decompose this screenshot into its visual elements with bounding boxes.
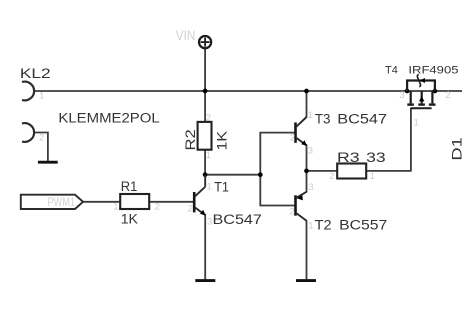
resistor R1 body (120, 194, 149, 209)
mosfet T4 substrate arrow (419, 96, 424, 101)
svg-text:2: 2 (289, 206, 294, 217)
wire T1 emitter to ground (204, 215, 206, 280)
svg-text:KLEMME2POL: KLEMME2POL (58, 110, 159, 126)
wire R1 to T1 base (149, 201, 193, 203)
svg-text:1: 1 (370, 171, 375, 182)
svg-text:2: 2 (329, 171, 334, 182)
junction dot output node (304, 169, 309, 174)
wire R2 bottom pin to T1 collector node (204, 150, 206, 175)
svg-text:1: 1 (113, 201, 118, 212)
wire R2 top pin (204, 91, 206, 122)
wire T1 collector node to base bus (205, 174, 260, 176)
svg-text:3: 3 (308, 182, 313, 193)
svg-text:PWM1: PWM1 (47, 195, 75, 209)
transistor T2 BC557 pnp (296, 192, 307, 221)
svg-text:33: 33 (366, 150, 386, 166)
ground symbol at KL2 pin 2 (38, 161, 58, 164)
wire base bus vertical (259, 133, 261, 206)
ground symbol at T2 collector (296, 279, 316, 282)
power symbol VIN+ (199, 36, 211, 48)
svg-text:1: 1 (308, 110, 313, 121)
transistor T1 BC547 npn (194, 175, 205, 216)
wire base bus to T3 base (260, 132, 294, 134)
svg-text:R2: R2 (183, 129, 199, 150)
svg-text:1: 1 (414, 117, 419, 128)
wire T2 collector to ground (306, 221, 308, 279)
svg-text:2: 2 (206, 112, 211, 123)
svg-text:1K: 1K (121, 211, 139, 227)
svg-text:BC547: BC547 (213, 212, 263, 228)
svg-text:2: 2 (39, 132, 44, 143)
svg-text:R3: R3 (337, 150, 360, 166)
svg-text:T4: T4 (385, 65, 398, 77)
wire VIN symbol to main net (204, 49, 206, 91)
junction dot T1 collector node (203, 172, 208, 177)
connector KL2 pin 1 terminal (22, 82, 34, 101)
svg-text:1K: 1K (215, 130, 231, 150)
mosfet T4 IRF4905 body (407, 81, 435, 109)
svg-text:2: 2 (445, 90, 450, 101)
junction dot T3 collector / main net (304, 89, 309, 94)
wire base bus to T2 base (260, 205, 294, 207)
svg-text:T2: T2 (315, 218, 332, 234)
svg-text:2: 2 (188, 203, 193, 214)
wire PWM1 flag to R1 (83, 201, 120, 203)
wire R3 to T4 gate (366, 108, 411, 171)
svg-text:3: 3 (308, 145, 313, 156)
svg-text:IRF4905: IRF4905 (408, 65, 458, 77)
wire T3 emitter to output node (306, 145, 308, 171)
svg-text:T1: T1 (214, 180, 229, 196)
connector KL2 pin 2 terminal (22, 123, 34, 142)
svg-text:1: 1 (207, 182, 212, 193)
wire T3 collector to main net (306, 91, 308, 117)
svg-text:2: 2 (290, 133, 295, 144)
resistor R2 body (198, 122, 212, 150)
wire output node to R3 (307, 170, 338, 172)
svg-text:R1: R1 (121, 179, 138, 195)
junction dot VIN / main net (203, 89, 208, 94)
junction dot base bus (258, 172, 263, 177)
svg-text:1: 1 (308, 221, 313, 232)
svg-text:1: 1 (39, 90, 44, 101)
ground symbol at T1 emitter (195, 279, 215, 282)
svg-text:KL2: KL2 (20, 66, 51, 82)
wire KL2 pin2 stub (35, 133, 48, 162)
mosfet T4 body diode arrow (417, 74, 425, 86)
svg-text:1: 1 (206, 150, 211, 161)
flag PWM1 (21, 195, 83, 209)
resistor R3 body (337, 164, 366, 179)
svg-text:D1: D1 (449, 137, 462, 161)
svg-text:3: 3 (399, 90, 404, 101)
wire T2 emitter to output node (306, 171, 308, 192)
svg-text:BC557: BC557 (339, 218, 387, 234)
junction dot T4 right pin (433, 89, 438, 94)
svg-text:BC547: BC547 (337, 112, 387, 128)
svg-text:VIN: VIN (176, 28, 196, 43)
svg-text:3: 3 (207, 217, 212, 228)
wire main VIN net horizontal (35, 90, 462, 92)
svg-text:2: 2 (155, 201, 160, 212)
junction dot T4 left pin (405, 89, 410, 94)
transistor T3 BC547 npn (296, 117, 307, 146)
svg-text:T3: T3 (315, 112, 331, 128)
